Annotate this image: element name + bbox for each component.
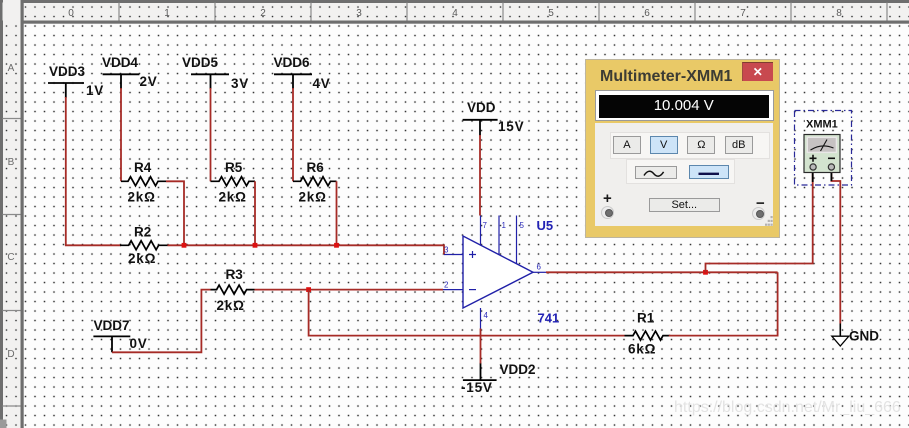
svg-text:3V: 3V	[231, 76, 249, 91]
button band 1	[610, 132, 771, 159]
svg-text:2: 2	[260, 8, 266, 19]
black stub XMM1 + terminal	[812, 170, 814, 182]
wire pin 4 to VDD2 rail	[480, 329, 482, 364]
wire output node to XMM1 + terminal	[706, 170, 813, 272]
resize grip	[765, 216, 773, 226]
op-amp U5 (741)	[463, 236, 533, 308]
button A	[613, 136, 641, 155]
close button	[742, 62, 773, 81]
black stub XMM1 - terminal	[830, 170, 832, 181]
svg-text:4: 4	[452, 8, 458, 19]
Multimeter-XMM1 window	[586, 60, 779, 238]
svg-text:15V: 15V	[498, 119, 524, 134]
svg-text:1V: 1V	[86, 83, 104, 98]
svg-text:8: 8	[836, 8, 842, 19]
svg-text:4: 4	[484, 311, 489, 320]
minus terminal label	[756, 195, 765, 212]
ground symbol GND	[832, 336, 849, 346]
wire R1 to output corner	[669, 272, 778, 335]
svg-text:R4: R4	[134, 160, 152, 175]
svg-text:6: 6	[537, 263, 542, 272]
power source VDD3	[48, 83, 84, 98]
svg-text:VDD5: VDD5	[182, 55, 219, 70]
junction R4/bus	[182, 243, 187, 248]
junction output node	[703, 270, 708, 275]
XMM1 instrument icon body	[804, 135, 840, 173]
svg-text:R1: R1	[637, 311, 655, 326]
resistor R5	[211, 177, 256, 186]
svg-text:2kΩ: 2kΩ	[299, 189, 327, 204]
svg-text:7: 7	[483, 221, 488, 230]
plus terminal	[601, 206, 614, 219]
minus terminal	[752, 207, 765, 220]
svg-text:3: 3	[356, 8, 362, 19]
wire XMM1 - terminal to ground	[831, 170, 840, 324]
svg-text:6: 6	[644, 8, 650, 19]
svg-text:VDD6: VDD6	[274, 55, 311, 70]
button dB	[725, 136, 753, 154]
svg-text:A: A	[8, 63, 15, 74]
svg-text:2kΩ: 2kΩ	[128, 251, 156, 266]
bottom-left border stub	[0, 420, 7, 428]
black stub above ground	[839, 324, 841, 337]
wire R4 to bus	[166, 181, 184, 245]
junction R6/bus	[334, 243, 339, 248]
power source VDD6	[274, 74, 312, 89]
power source VDD (+15V rail)	[463, 120, 498, 136]
wire R5 to bus	[254, 181, 256, 245]
plus terminal label	[603, 190, 612, 207]
power source VDD2 (-15V rail)	[463, 363, 497, 380]
button AC (sine)	[635, 166, 677, 180]
resistor R2	[120, 241, 168, 250]
XMM1 instrument selection box (dashed)	[795, 111, 852, 186]
wire VDD5 to R5	[210, 88, 212, 181]
svg-text:1: 1	[164, 8, 170, 19]
svg-text:R3: R3	[226, 267, 244, 282]
svg-text:VDD7: VDD7	[94, 318, 130, 333]
resistor R3	[211, 285, 255, 294]
svg-text:7: 7	[740, 8, 746, 19]
svg-text:6kΩ: 6kΩ	[628, 342, 656, 357]
wire VDD6 to R6	[292, 88, 294, 181]
display readout 10.004 V	[599, 95, 769, 118]
svg-text:0: 0	[68, 8, 74, 19]
wire R3 to op-amp pin 2	[255, 289, 444, 291]
junction feedback node	[306, 287, 311, 292]
button DC (selected)	[689, 165, 729, 179]
svg-text:5: 5	[520, 221, 525, 230]
set button	[649, 198, 720, 212]
button V (selected)	[650, 136, 678, 155]
svg-text:VDD3: VDD3	[49, 64, 86, 79]
svg-text:https://blog.csdn.net/Mr_liu_6: https://blog.csdn.net/Mr_liu_666	[674, 399, 901, 416]
wire R6 to bus	[336, 181, 338, 245]
left ruler	[0, 0, 24, 428]
svg-text:2V: 2V	[140, 74, 158, 89]
svg-text:R5: R5	[225, 160, 243, 175]
svg-text:741: 741	[538, 311, 560, 326]
button Ω	[687, 136, 715, 154]
top ruler	[0, 0, 909, 24]
svg-text:D: D	[7, 349, 14, 360]
multimeter title	[600, 68, 732, 86]
button band 2	[626, 159, 736, 184]
multimeter inner panel	[595, 123, 773, 226]
wire VDD4 to R4	[120, 88, 122, 181]
power source VDD7	[93, 336, 130, 352]
svg-text:2kΩ: 2kΩ	[219, 189, 247, 204]
svg-text:B: B	[8, 157, 15, 168]
resistor R1	[625, 331, 671, 340]
svg-text:VDD4: VDD4	[102, 55, 139, 70]
display bezel	[595, 90, 775, 121]
wire VDD rail to pin 7	[479, 135, 481, 216]
svg-text:4V: 4V	[313, 76, 331, 91]
svg-text:VDD2: VDD2	[500, 362, 536, 377]
svg-text:XMM1: XMM1	[806, 119, 838, 131]
power source VDD5	[191, 74, 229, 89]
wire VDD3 to R2 left	[66, 97, 121, 245]
svg-text:2kΩ: 2kΩ	[128, 189, 156, 204]
svg-text:-15V: -15V	[461, 380, 493, 395]
wire feedback node down to R1	[309, 290, 625, 336]
junction R5/bus	[253, 243, 258, 248]
wire R2 to op-amp pin 3 (summing bus)	[168, 245, 445, 254]
ruler corner box	[3, 3, 21, 21]
resistor R4	[121, 177, 166, 186]
svg-text:U5: U5	[537, 218, 554, 233]
svg-text:R2: R2	[134, 225, 151, 240]
resistor R6	[293, 177, 337, 186]
power source VDD4	[103, 74, 140, 89]
svg-text:0V: 0V	[130, 336, 148, 351]
XMM1 instrument label	[805, 118, 839, 131]
wire op-amp output to junction and feedback corner	[546, 271, 778, 273]
svg-text:2: 2	[444, 281, 449, 290]
svg-text:3: 3	[444, 246, 449, 255]
svg-text:2kΩ: 2kΩ	[217, 298, 245, 313]
svg-text:R6: R6	[307, 160, 325, 175]
svg-text:5: 5	[548, 8, 554, 19]
svg-text:C: C	[7, 252, 14, 263]
svg-text:1: 1	[502, 221, 507, 230]
svg-text:VDD: VDD	[467, 100, 496, 115]
svg-text:GND: GND	[849, 329, 879, 344]
wire VDD7 to R3	[112, 290, 211, 353]
